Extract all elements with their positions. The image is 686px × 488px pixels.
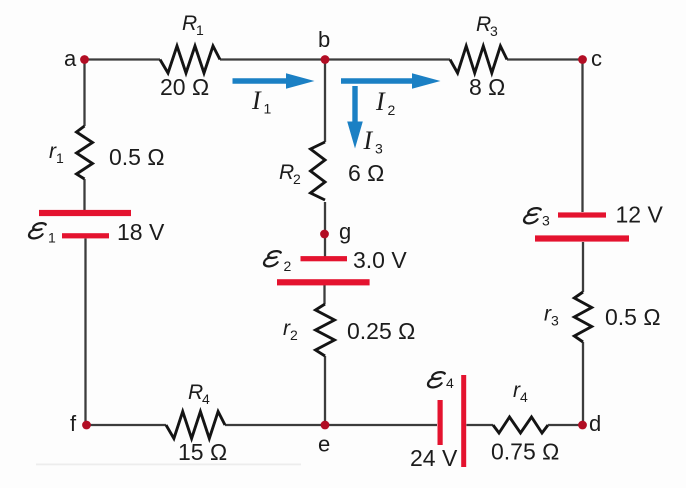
node c [578,55,587,64]
resistor R4 [166,412,225,439]
label r4 [513,379,528,405]
battery E3 long plate [535,235,629,241]
wire top b-c [325,58,583,60]
svg-text:0.75 Ω: 0.75 Ω [491,439,559,465]
svg-text:d: d [589,411,601,436]
wire bottom f-e [87,424,326,426]
node d [578,421,587,430]
label c [591,46,602,71]
label 12 V [616,202,664,228]
label E3 [523,208,550,228]
svg-text:4: 4 [446,375,454,391]
svg-text:I: I [375,87,386,116]
label 0.5 ohm right [605,304,661,330]
svg-text:4: 4 [520,389,528,405]
svg-text:I: I [251,86,262,115]
svg-text:R: R [279,161,294,184]
svg-text:f: f [70,411,77,436]
label 0.75 ohm [491,439,559,465]
label f [70,411,77,436]
label d [589,411,601,436]
svg-text:3: 3 [490,23,498,39]
wire left a-f [85,60,86,426]
current arrow I3 [347,86,363,149]
resistor R1 [160,46,220,73]
svg-text:12 V: 12 V [616,202,664,228]
battery E2 long plate [277,279,370,285]
label I2 [375,87,396,118]
battery E4 long plate [461,375,466,467]
label b [318,27,330,52]
svg-text:R: R [188,381,203,404]
svg-text:R: R [476,13,491,36]
svg-text:4: 4 [202,391,210,407]
label 20 ohm [160,74,209,100]
svg-text:3: 3 [542,213,550,229]
node f [82,421,91,430]
label 15 ohm [178,439,227,465]
battery E1 long plate [39,210,131,216]
label g [339,219,351,244]
resistor r3 [574,292,591,342]
node g [320,230,329,239]
svg-text:R: R [182,12,197,35]
svg-text:g: g [339,219,351,244]
svg-text:2: 2 [388,102,396,118]
current arrow I1 [233,73,315,89]
svg-text:2: 2 [293,171,301,187]
svg-text:1: 1 [56,150,64,166]
label R1 [182,12,204,38]
svg-text:0.25 Ω: 0.25 Ω [347,318,415,344]
wire r4 to d [548,424,583,426]
svg-text:c: c [591,46,602,71]
svg-text:8 Ω: 8 Ω [469,74,505,100]
battery E3 short plate [558,212,606,217]
svg-text:18 V: 18 V [117,219,165,245]
label 24 V [410,445,458,471]
battery E2 short plate [301,256,348,261]
label I1 [251,86,272,117]
label 8 ohm [469,74,505,100]
label 0.5 ohm left [109,144,165,170]
label I3 [363,126,384,157]
node b [321,55,330,64]
svg-text:6 Ω: 6 Ω [348,160,384,186]
label E2 [263,251,291,274]
svg-text:15 Ω: 15 Ω [178,439,227,465]
svg-text:a: a [64,46,77,71]
svg-text:2: 2 [284,258,292,274]
svg-text:1: 1 [48,230,56,246]
svg-text:3.0 V: 3.0 V [353,247,407,273]
svg-text:3: 3 [375,141,383,157]
wire mid b-e [323,60,326,426]
label E1 [28,223,56,245]
label r3 [544,303,559,329]
label E4 [427,372,454,391]
node a [80,55,89,64]
label e [318,432,330,457]
current arrow I2 [341,73,441,89]
battery E4 short plate [438,400,443,445]
label 0.25 ohm [347,318,415,344]
label 18 V [117,219,165,245]
label r1 [49,140,64,166]
wire bottom e to E4 [325,424,437,426]
svg-text:2: 2 [290,327,298,343]
resistor R3 [450,46,507,73]
resistor r4 [493,417,548,433]
resistor r1 [77,126,93,179]
label a [64,46,77,71]
svg-text:0.5 Ω: 0.5 Ω [109,144,165,170]
wire right c-d [581,60,584,426]
label 3.0 V [353,247,407,273]
svg-text:24 V: 24 V [410,445,458,471]
label r2 [283,317,298,343]
svg-text:I: I [363,126,374,155]
resistor R2 [311,142,326,200]
label R3 [476,13,498,39]
label R2 [279,161,301,187]
svg-text:3: 3 [551,313,559,329]
node e [321,421,330,430]
label 6 ohm [348,160,384,186]
resistor r2 [316,304,335,356]
svg-text:1: 1 [196,22,204,38]
battery E1 short plate [62,233,109,238]
svg-text:b: b [318,27,330,52]
wire E4 to r4 [466,424,493,426]
svg-text:1: 1 [264,101,272,117]
label R4 [188,381,210,407]
svg-text:20 Ω: 20 Ω [160,74,209,100]
svg-text:e: e [318,432,330,457]
svg-text:0.5 Ω: 0.5 Ω [605,304,661,330]
wire top a-b [85,58,326,60]
